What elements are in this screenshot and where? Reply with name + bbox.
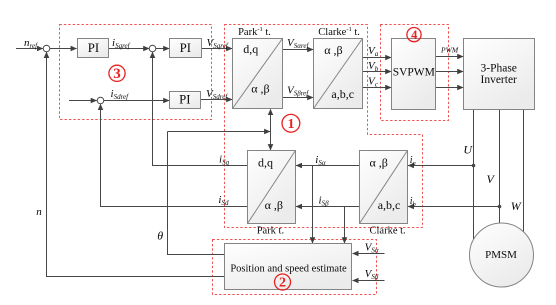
svg-text:U: U	[463, 142, 473, 156]
svg-text:VSαref: VSαref	[287, 37, 309, 50]
svg-text:n: n	[36, 206, 42, 218]
svg-text:a,b,c: a,b,c	[378, 198, 401, 212]
svg-text:Position and speed estimate: Position and speed estimate	[230, 263, 347, 274]
svg-text:θ: θ	[157, 228, 163, 242]
svg-text:Park t.: Park t.	[257, 225, 284, 236]
svg-text:d,q: d,q	[258, 155, 273, 169]
svg-text:1: 1	[288, 117, 295, 132]
svg-text:Vc: Vc	[368, 76, 379, 89]
svg-text:Park-1 t.: Park-1 t.	[238, 26, 271, 38]
svg-text:Clarke-1 t.: Clarke-1 t.	[318, 26, 360, 38]
svg-text:PI: PI	[180, 41, 191, 55]
svg-text:VSβref: VSβref	[287, 85, 309, 98]
svg-text:3-Phase: 3-Phase	[480, 62, 516, 74]
svg-text:PI: PI	[179, 93, 190, 107]
svg-text:2: 2	[279, 276, 286, 291]
svg-text:VSqref: VSqref	[207, 37, 229, 50]
svg-text:d,q: d,q	[243, 42, 258, 56]
svg-text:iSβ: iSβ	[319, 195, 330, 208]
svg-text:Vb: Vb	[368, 60, 379, 73]
svg-text:iSqref: iSqref	[112, 37, 131, 50]
svg-text:V: V	[487, 172, 496, 186]
svg-text:PMSM: PMSM	[485, 249, 517, 261]
svg-text:4: 4	[411, 28, 418, 42]
svg-text:ib: ib	[410, 196, 417, 208]
svg-text:ia: ia	[410, 155, 416, 167]
svg-text:a,b,c: a,b,c	[331, 87, 354, 101]
svg-text:α ,β: α ,β	[251, 81, 269, 95]
svg-text:iSq: iSq	[219, 153, 230, 166]
svg-text:nref: nref	[24, 37, 38, 50]
svg-text:iSd: iSd	[218, 194, 229, 207]
svg-text:PI: PI	[88, 41, 99, 55]
svg-text:W: W	[511, 199, 522, 213]
svg-text:SVPWM: SVPWM	[393, 67, 435, 79]
svg-text:iSα: iSα	[315, 154, 326, 167]
svg-text:α ,β: α ,β	[324, 43, 342, 57]
svg-text:PWM: PWM	[440, 46, 459, 55]
svg-text:Inverter: Inverter	[480, 74, 517, 86]
svg-text:3: 3	[113, 66, 121, 82]
svg-text:iSdref: iSdref	[111, 88, 130, 101]
svg-text:Clarke t.: Clarke t.	[370, 225, 406, 236]
svg-text:α ,β: α ,β	[265, 198, 283, 212]
svg-text:Va: Va	[368, 45, 379, 58]
svg-text:α ,β: α ,β	[370, 155, 388, 169]
